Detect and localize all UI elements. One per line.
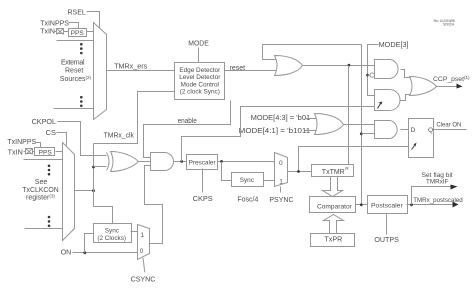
wire CKPS select [202, 169, 204, 193]
wire set flag branch [412, 187, 451, 205]
wire reset to OR gate [225, 70, 277, 72]
wire comparator output [356, 204, 368, 206]
node PSYNC [269, 197, 293, 204]
wire PPS to clock mux [56, 151, 63, 153]
wire MODE[3] bracket and vertical [368, 45, 379, 96]
XOR gate G7 [107, 152, 139, 172]
node ON [61, 250, 71, 257]
pin symbol TxIN (reset) [57, 29, 64, 35]
svg-text:CSYNC: CSYNC [131, 277, 156, 284]
mux clock sources [63, 143, 75, 241]
wire sync box to CSYNC mux input 1 [131, 231, 138, 233]
wire TMRx_clk to ON sync box [94, 207, 113, 224]
svg-text:CS: CS [46, 130, 57, 137]
wire RSEL select to reset mux [87, 12, 100, 28]
wire sync box to PSYNC mux input 1 [264, 180, 275, 182]
wire prescaler output to sync box [222, 162, 232, 181]
wire gated clock to G3 edge input [182, 107, 375, 162]
svg-text:Q: Q [428, 127, 433, 134]
junction TMRx_clk to XOR [92, 166, 95, 169]
node CSYNC [131, 277, 156, 284]
svg-text:CCP_pset(1): CCP_pset(1) [433, 75, 470, 83]
wire G5 output to AND gate G6 [344, 124, 375, 126]
wire OUTPS select [386, 214, 388, 235]
wire TxIN pin to PPS box [54, 31, 69, 33]
node CKPS [193, 196, 213, 203]
mode control box U1 [175, 63, 225, 100]
wire G8 output to prescaler [174, 161, 187, 163]
AND gate G3 (edge triggered) [375, 90, 401, 111]
node Fosc/4 [237, 197, 258, 204]
wire clock mux output [75, 190, 94, 192]
svg-text:Postscaler: Postscaler [371, 203, 403, 210]
wire TMRx_ers [107, 70, 175, 72]
wire U2 Q output Clear ON [434, 129, 467, 131]
wire prescaler output to PSYNC mux [218, 161, 275, 163]
wire clock source input 2 [24, 159, 63, 161]
node TMRx_postscaled [413, 197, 463, 204]
svg-text:0: 0 [140, 248, 144, 255]
svg-text:Level Detector: Level Detector [179, 74, 221, 81]
AND gate G6 [375, 121, 398, 139]
clock edge arrow in G3 [378, 104, 381, 109]
mux CSYNC [138, 225, 150, 260]
AND gate G2 [375, 60, 399, 79]
svg-text:Mode Control: Mode Control [181, 81, 219, 88]
wire TMRx_clk stub to XOR [94, 166, 107, 168]
sync box (Fosc/4) [232, 173, 264, 187]
arrowhead TMRx_postscaled [453, 202, 459, 208]
mux external reset sources [94, 23, 107, 120]
junction prescaler output [220, 160, 223, 163]
junction gated clock tap [180, 160, 183, 163]
wire TxINPPS to PPS box (clock) [36, 143, 41, 148]
svg-text:1: 1 [279, 178, 283, 185]
junction match to G6 [360, 132, 363, 135]
wire CCP_pset output [437, 86, 457, 88]
wire TxIN pin to PPS box (clock) [24, 151, 35, 153]
node reset [230, 65, 246, 72]
svg-text:(2 clock Sync): (2 clock Sync) [180, 89, 220, 96]
svg-text:MODE[4:1] = 'b1011: MODE[4:1] = 'b1011 [239, 128, 311, 135]
node TMRx_clk label [104, 132, 135, 139]
node Set flag bit TMRxIF [422, 172, 453, 185]
wire match feedback to OR gate top input [263, 45, 362, 60]
wire reset source input bottom [54, 108, 94, 110]
node TxIN (clock) [8, 150, 23, 157]
svg-text:register(3): register(3) [26, 193, 55, 201]
wire CS select to clock mux [57, 133, 67, 146]
wire ON to CSYNC mux input 0 [73, 252, 138, 254]
ellipsis dots lower (reset sources) [80, 96, 83, 107]
wire CKPOL to XOR gate [58, 122, 107, 156]
wire TMRx_clk to mode control box [94, 92, 175, 144]
svg-text:TxIN: TxIN [8, 150, 23, 157]
postscaler box [368, 196, 408, 214]
svg-text:(2 Clocks): (2 Clocks) [97, 235, 126, 242]
wire G1 output to AND gate G2 [303, 65, 375, 67]
svg-text:Sync: Sync [240, 177, 255, 184]
svg-text:Sync: Sync [105, 227, 120, 234]
wire MODE[3] stub to bubble [368, 75, 370, 77]
junction G1 out to R [348, 64, 351, 67]
wire clock source input bottom [25, 228, 63, 230]
node CCP_pset label [433, 75, 470, 83]
node OUTPS [374, 237, 399, 244]
TxTMR box [312, 165, 354, 177]
wire PSYNC select [280, 187, 282, 193]
mux PSYNC [275, 153, 288, 187]
ellipsis dots lower (clock sources) [48, 216, 51, 227]
node TxINPPS (clock) [7, 139, 36, 146]
svg-text:Reset: Reset [65, 68, 83, 75]
ellipsis dots upper (reset sources) [80, 43, 83, 54]
svg-text:PPS: PPS [71, 30, 85, 37]
svg-text:MODE[4:3] = 'b01: MODE[4:3] = 'b01 [251, 115, 311, 122]
TxPR box [311, 234, 355, 247]
svg-text:enable: enable [178, 118, 197, 125]
junction ON to sync box [83, 251, 86, 254]
wire XOR output to AND gate G8 [139, 161, 151, 163]
D flip-flop U2 [409, 119, 434, 158]
junction MODE[3] to G2 bubble [366, 74, 369, 77]
arrowhead TMRxIF [451, 185, 458, 190]
clock edge arrow in U2 [412, 146, 415, 150]
node CKPOL [32, 119, 57, 126]
OR gate G1 (reset or match) [275, 56, 303, 76]
svg-text:OUTPS: OUTPS [374, 237, 399, 244]
wire ON sync to G8 [145, 166, 163, 244]
pin symbol TxIN (clock) [26, 149, 33, 155]
wire TMRx_clk vertical trunk [93, 144, 95, 207]
svg-text:Fosc/4: Fosc/4 [237, 197, 258, 204]
svg-text:Prescaler: Prescaler [189, 159, 217, 166]
svg-text:Clear ON: Clear ON [436, 122, 461, 129]
node MODE[3] [379, 42, 409, 49]
svg-text:RSEL: RSEL [68, 9, 86, 16]
wire G2 output to OR gate G4 [401, 70, 410, 78]
svg-text:Sources(2): Sources(2) [60, 75, 92, 83]
svg-text:PSYNC: PSYNC [269, 197, 293, 204]
junction psync clock tap [297, 170, 300, 173]
svg-text:R: R [345, 166, 349, 172]
svg-text:TxINPPS: TxINPPS [7, 139, 36, 146]
inverter bubble on AND gate G2 [370, 73, 374, 77]
svg-text:TxIN: TxIN [40, 29, 55, 36]
prescaler box [187, 155, 218, 170]
svg-text:5/29/2014: 5/29/2014 [443, 22, 454, 26]
svg-text:Edge Detector: Edge Detector [179, 67, 221, 74]
node RSEL [68, 9, 86, 16]
svg-text:TMRxIF: TMRxIF [426, 178, 449, 185]
wire comparator match vertical [361, 45, 363, 205]
junction postscaler output [410, 203, 413, 206]
node enable [178, 118, 197, 125]
wire G6 output to D flip-flop [401, 129, 409, 131]
wire reset-or-match down to TxTMR R pin [348, 66, 350, 165]
revision note [434, 19, 456, 27]
svg-text:CKPS: CKPS [193, 196, 213, 203]
OR gate G4 (CCP_pset) [410, 77, 437, 96]
node TxINPPS (reset) [40, 20, 69, 27]
OR gate G5 (mode decode) [315, 114, 344, 135]
svg-text:1: 1 [141, 232, 145, 239]
comparator box [310, 197, 356, 213]
PPS box (clock) [35, 148, 55, 157]
svg-text:D: D [411, 127, 416, 134]
svg-text:0: 0 [279, 160, 283, 167]
node CS [46, 130, 57, 137]
label See TxCLKCON register [22, 179, 59, 201]
svg-text:External: External [61, 59, 85, 66]
svg-text:MODE[3]: MODE[3] [379, 42, 409, 49]
node TMRx_ers label [114, 63, 148, 70]
wire mode decode stubs to OR gate G5 [305, 119, 317, 131]
junction TMRx_clk main [92, 189, 95, 192]
block arrow TxTMR to comparator [323, 177, 343, 197]
svg-text:Comparator: Comparator [317, 203, 353, 210]
node MODE[4:1] = 'b1011 [239, 128, 311, 135]
AND gate G8 (clock gate) [151, 153, 174, 171]
svg-text:MODE: MODE [188, 40, 209, 47]
svg-text:TxINPPS: TxINPPS [40, 20, 69, 27]
svg-text:TxPR: TxPR [324, 237, 342, 244]
wire CSYNC select [143, 258, 145, 273]
node TxIN (reset) [40, 29, 55, 36]
wire PPS to reset mux [87, 31, 94, 33]
wire ON to sync box input [85, 234, 94, 253]
svg-text:TMRx_clk: TMRx_clk [104, 132, 135, 139]
wire MODE select to mode control box [198, 48, 200, 63]
wire match stub to G6 [362, 133, 375, 135]
ellipsis dots upper (clock sources) [48, 165, 51, 176]
wire TxINPPS to PPS box [69, 23, 79, 29]
wire G3 output to OR gate G4 [400, 95, 410, 101]
svg-text:TMRx_postscaled: TMRx_postscaled [413, 197, 463, 204]
node MODE [188, 40, 209, 47]
wire enable to G8 [144, 101, 231, 158]
wire psync clock to U2 clock pin [299, 147, 409, 172]
PPS box (reset) [69, 29, 87, 38]
svg-text:ON: ON [61, 250, 71, 257]
block arrow TxPR to comparator [324, 215, 344, 234]
sync box (2 clocks) [94, 224, 132, 243]
svg-text:PPS: PPS [39, 150, 53, 157]
svg-text:CKPOL: CKPOL [32, 119, 57, 126]
junction comparator match [360, 203, 363, 206]
wire reset source input 2 [57, 40, 94, 42]
svg-text:TMRx_ers: TMRx_ers [114, 63, 148, 70]
svg-text:TxTMR: TxTMR [322, 169, 345, 176]
arrowhead CCP_pset [457, 84, 463, 89]
node MODE[4:3] = 'b01 [251, 115, 311, 122]
label External Reset Sources [60, 59, 92, 83]
node Clear ON [436, 122, 461, 129]
wire postscaler output TMRx_postscaled [407, 204, 453, 206]
wire PSYNC mux output to TxTMR [288, 171, 312, 173]
svg-text:See: See [35, 179, 48, 186]
